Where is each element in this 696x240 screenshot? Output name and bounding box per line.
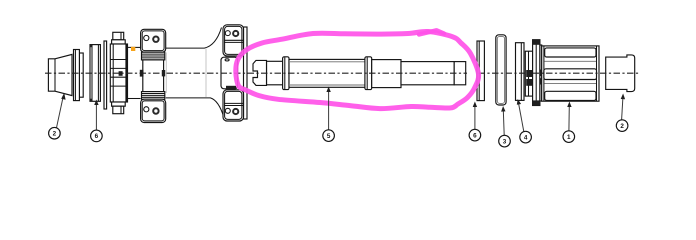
hub barrel: [166, 28, 224, 118]
end cap left flange: [74, 50, 84, 101]
washer left (part 6): [90, 45, 100, 102]
svg-text:4: 4: [524, 134, 528, 141]
svg-text:2: 2: [620, 123, 624, 130]
svg-text:6: 6: [95, 133, 99, 140]
leader line 2 right: [621, 94, 625, 120]
end cap left (part 2) body: [48, 54, 72, 95]
svg-text:5: 5: [327, 133, 331, 140]
orange marker: [131, 47, 135, 51]
leader line 4: [517, 99, 524, 132]
leader line 5: [326, 87, 330, 130]
hub neck edges: [128, 46, 141, 48]
label circle 5: [323, 130, 335, 142]
centerline right segment: [479, 72, 641, 74]
svg-text:6: 6: [473, 132, 477, 139]
leader line 6 right: [473, 102, 477, 130]
leader line 1: [567, 102, 571, 131]
pink highlight loop: [236, 31, 479, 108]
leader line 6 left: [94, 100, 98, 131]
label circle 2 left: [49, 127, 61, 139]
end cap right (part 2): [606, 55, 635, 92]
leader line 2 left: [57, 93, 66, 128]
svg-text:2: 2: [53, 130, 57, 137]
ring (part 4): [516, 43, 525, 101]
axle (part 5): [253, 57, 466, 90]
centerline: [45, 72, 467, 74]
svg-text:3: 3: [503, 138, 507, 145]
label circle 3: [499, 135, 511, 147]
freehub body (part 1): [542, 46, 599, 101]
svg-text:1: 1: [567, 134, 571, 141]
label circle 1: [563, 131, 575, 143]
ratchet rings: [525, 40, 546, 106]
washer right (part 6): [477, 41, 484, 101]
hub rotor spline ring: [110, 32, 127, 113]
hub left flange: [140, 29, 166, 122]
pink pen overlap kink: [419, 30, 444, 34]
label circle 6 left: [91, 130, 103, 142]
hub end plate: [104, 41, 107, 109]
label circle 6 right: [469, 129, 481, 141]
label circle 2 right: [616, 120, 628, 132]
hub right flange: [221, 25, 247, 121]
label circle 4: [520, 131, 532, 143]
seal disc (part 3): [496, 35, 506, 105]
leader line 3: [501, 106, 505, 135]
